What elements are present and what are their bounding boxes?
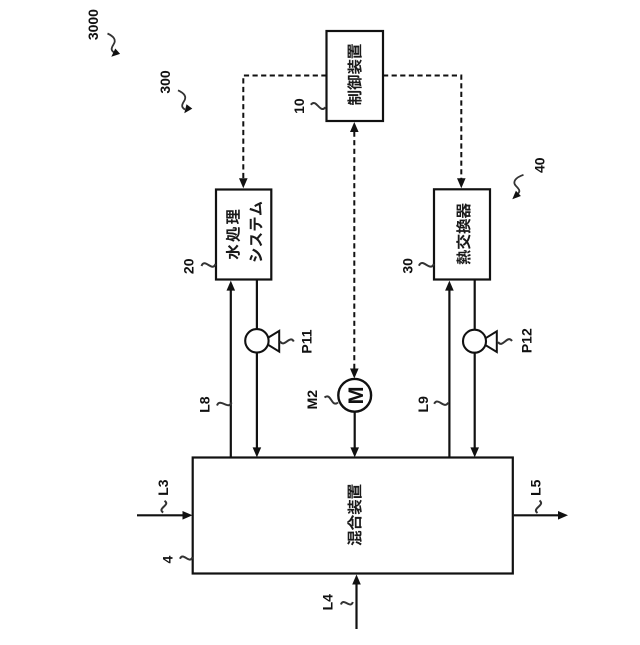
- pipe L9: heat exchanger to mixer through pump P12: [474, 281, 476, 449]
- dashed control line: control device to heat exchanger: [383, 76, 461, 180]
- arrowhead up into water treatment bottom: [227, 281, 236, 291]
- heat exchanger text 熱交換器: [456, 203, 471, 264]
- tilde for P12: [498, 339, 512, 344]
- control device label text 制御装置: [347, 44, 362, 105]
- tilde for L3: [161, 501, 166, 513]
- arrowhead down into mixer top from P12 line: [470, 447, 479, 457]
- pipe L8: water treatment system to mixer through pump P11: [256, 281, 258, 449]
- pump P12 symbol (circle with cone): [463, 330, 497, 353]
- svg-text:M2: M2: [304, 390, 320, 410]
- arrowhead L3 into mixer left edge: [183, 511, 193, 520]
- tilde for 30: [419, 263, 434, 267]
- svg-text:L9: L9: [415, 396, 431, 413]
- arrowhead down into mixer top from P11 line: [253, 447, 262, 457]
- dashed control line: control device to motor M2: [353, 132, 355, 370]
- tilde for L4: [341, 602, 353, 605]
- pump P11 symbol (circle with cone): [245, 329, 279, 352]
- inlet line L4 into mixer bottom: [355, 584, 357, 629]
- lead line with arrow for 3000: [108, 34, 121, 57]
- svg-text:3000: 3000: [85, 9, 101, 40]
- dashed control line: control device to water treatment system: [243, 76, 326, 180]
- heat exchanger box 30 熱交換器: [434, 189, 490, 279]
- tilde for L8: [217, 403, 232, 406]
- arrowhead L4 up into mixer bottom: [352, 575, 361, 585]
- svg-text:300: 300: [157, 70, 173, 94]
- svg-text:L3: L3: [155, 479, 171, 496]
- svg-text:4: 4: [159, 555, 175, 563]
- svg-text:L4: L4: [320, 594, 336, 611]
- tilde for 20: [202, 263, 216, 266]
- mixing device text 混合装置: [347, 484, 362, 545]
- pipe: mixer to heat exchanger (return line): [448, 290, 450, 458]
- svg-text:P12: P12: [519, 328, 535, 353]
- water treatment text line1 水処理: [226, 210, 240, 260]
- pipe: mixer to water treatment system (return line): [230, 290, 232, 458]
- tilde for 4: [180, 556, 193, 559]
- motor M2 symbol (circle with M): [338, 379, 371, 412]
- tilde for L9: [434, 402, 448, 405]
- water treatment system box 20 水処理システム: [216, 190, 271, 280]
- arrowhead L5 pointing right: [558, 511, 568, 520]
- arrowhead up into control device bottom: [350, 122, 359, 132]
- lead line with arrow for 300: [178, 90, 192, 113]
- svg-text:P11: P11: [299, 329, 315, 353]
- svg-text:L8: L8: [197, 396, 213, 413]
- svg-text:40: 40: [531, 157, 547, 173]
- tilde for 10: [311, 103, 326, 109]
- mixing device box 4 混合装置: [193, 458, 513, 574]
- shaft line: motor M2 to mixer: [354, 410, 356, 448]
- svg-text:10: 10: [291, 98, 307, 114]
- svg-text:L5: L5: [528, 479, 544, 496]
- tilde for M2: [325, 396, 339, 403]
- arrowhead up into heat exchanger bottom: [445, 281, 454, 291]
- svg-text:M: M: [344, 386, 368, 404]
- arrowhead down into mixer top from motor: [350, 447, 359, 457]
- arrowhead into heat exchanger box top: [457, 178, 466, 188]
- tilde for L5: [536, 501, 541, 514]
- tilde for P11: [280, 339, 294, 343]
- water treatment text line2 システム: [249, 202, 262, 262]
- arrowhead into water treatment box top: [239, 178, 248, 188]
- svg-text:30: 30: [400, 258, 416, 274]
- lead line with arrow for 40: [512, 175, 523, 200]
- svg-text:20: 20: [181, 258, 197, 274]
- outlet line L5 from mixer: [514, 514, 559, 516]
- control device box U10 制御装置: [327, 31, 384, 121]
- inlet line L3 into mixer: [137, 514, 184, 516]
- arrowhead down into motor M2 top: [350, 369, 359, 379]
